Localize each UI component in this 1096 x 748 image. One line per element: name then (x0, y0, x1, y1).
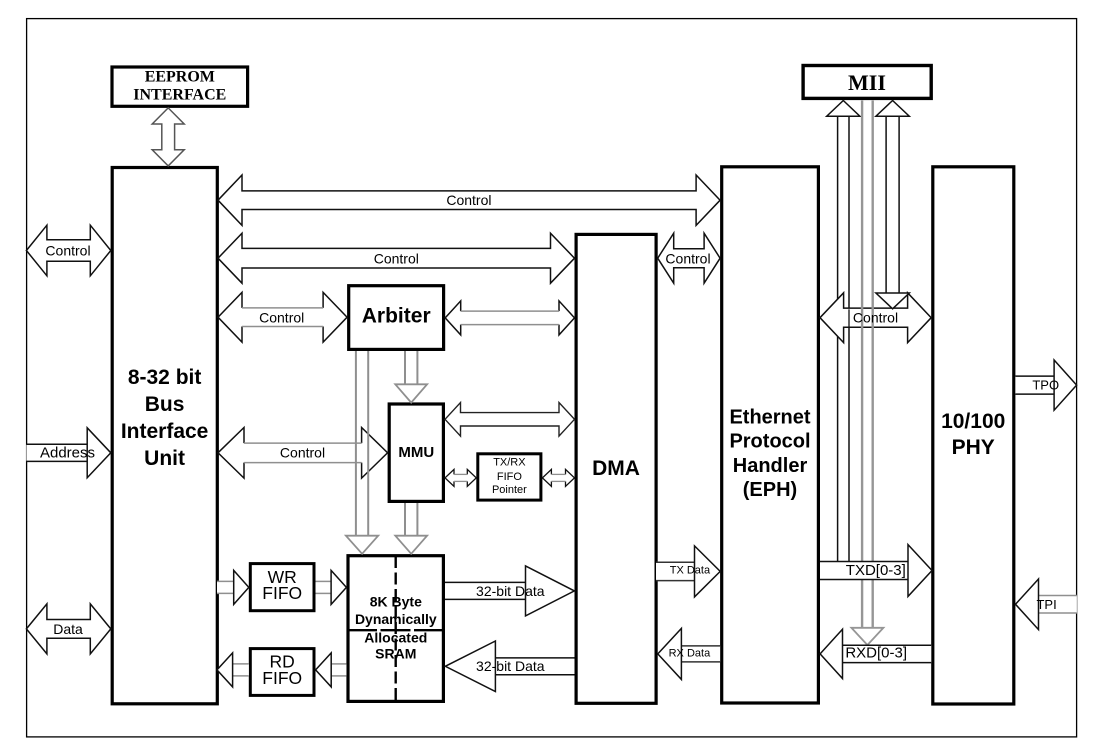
svg-text:TPI: TPI (1036, 597, 1056, 612)
svg-text:Control: Control (853, 310, 898, 326)
svg-text:MII: MII (848, 70, 886, 95)
svg-text:EEPROM: EEPROM (145, 69, 215, 86)
bus MII left (up arrow to MII) (838, 116, 849, 561)
bus 32-bit Data SRAM to DMA (arrow right) (445, 582, 526, 599)
svg-text:8K Byte: 8K Byte (370, 593, 422, 609)
svg-text:Ethernet: Ethernet (729, 407, 810, 429)
bus MII right (arrow MII down to EPH-PHY control) (886, 116, 899, 292)
wire MMU to SRAM (gray arrow down) (404, 503, 406, 536)
block MMU (389, 404, 443, 501)
wire crossing segment (848, 309, 850, 327)
block Ethernet Protocol Handler (EPH) (722, 167, 819, 703)
svg-text:Control: Control (259, 309, 304, 325)
block MII (803, 66, 931, 99)
block TX/RX FIFO Pointer (478, 454, 541, 500)
bus RD FIFO to BIU (arrow left) (233, 664, 249, 676)
bus Arbiter-DMA (double arrow) (445, 301, 574, 335)
svg-text:INTERFACE: INTERFACE (133, 87, 226, 104)
svg-text:10/100: 10/100 (941, 410, 1005, 433)
bus BIU to WR FIFO (arrow right) (217, 581, 234, 593)
svg-text:PHY: PHY (952, 436, 995, 459)
bus MMU-FIFOPointer (small double arrow) (445, 469, 476, 486)
svg-text:32-bit Data: 32-bit Data (476, 658, 545, 674)
bus EEPROM-BIU (vertical double arrow) (152, 108, 184, 166)
bus Control DMA-EPH (double arrow) (658, 233, 720, 283)
svg-text:Arbiter: Arbiter (362, 305, 431, 328)
bus RXD[0-3] PHY to EPH (arrow left) (843, 645, 932, 662)
svg-text:FIFO: FIFO (262, 583, 302, 603)
svg-text:Control: Control (280, 445, 325, 461)
svg-text:RX Data: RX Data (669, 647, 711, 659)
bus MMU-DMA (double arrow) (445, 403, 575, 437)
svg-text:Interface: Interface (121, 420, 209, 443)
bus Control BIU-Arbiter (double arrow) (218, 292, 347, 342)
wire Arbiter to SRAM (gray arrow down) (355, 351, 357, 536)
svg-text:MMU: MMU (398, 444, 434, 461)
bus 32-bit Data DMA to SRAM (arrow left) (495, 658, 574, 675)
svg-text:Control: Control (374, 250, 419, 266)
svg-text:Dynamically: Dynamically (355, 611, 437, 627)
bus Control BIU-DMA (double arrow) (218, 233, 575, 283)
bus Control BIU-MMU (double arrow) (218, 428, 388, 479)
svg-text:Control: Control (45, 242, 90, 258)
bus Control host-BIU (double arrow) (26, 225, 110, 276)
svg-text:TXD[0-3]: TXD[0-3] (846, 562, 906, 579)
svg-text:TPO: TPO (1032, 378, 1059, 393)
svg-text:Allocated: Allocated (364, 630, 427, 646)
block 10/100 PHY (933, 167, 1014, 704)
block WR FIFO (250, 564, 314, 611)
block 8-32 bit Bus Interface Unit (112, 168, 217, 704)
block DMA (576, 234, 656, 703)
svg-text:FIFO: FIFO (497, 471, 522, 483)
wire Arbiter to MMU (gray arrow down) (404, 351, 406, 384)
block Arbiter (349, 286, 444, 350)
bus TPI into PHY (arrow left) (1039, 596, 1077, 614)
svg-text:TX Data: TX Data (670, 564, 711, 576)
bus Address host-BIU (single arrow) (26, 444, 87, 461)
svg-text:Control: Control (665, 250, 710, 266)
svg-text:(EPH): (EPH) (743, 479, 797, 501)
block 8K Byte Dynamically Allocated SRAM (348, 556, 443, 702)
svg-text:DMA: DMA (592, 457, 640, 480)
bus RX Data EPH to DMA (arrow left) (681, 646, 720, 662)
block RD FIFO (250, 649, 314, 696)
bus TPO PHY out (arrow right) (1015, 376, 1054, 394)
bus TX Data DMA to EPH (arrow right) (656, 562, 695, 580)
svg-text:SRAM: SRAM (375, 646, 416, 662)
bus SRAM to RD FIFO (arrow left) (331, 664, 346, 676)
bus Data host-BIU (double arrow) (26, 604, 110, 654)
svg-text:32-bit Data: 32-bit Data (476, 583, 545, 599)
svg-text:8-32 bit: 8-32 bit (128, 366, 202, 389)
svg-text:Protocol: Protocol (729, 431, 810, 453)
block EEPROM INTERFACE (112, 67, 248, 106)
bus Control BIU-EPH (double arrow) (218, 175, 720, 225)
svg-text:Address: Address (40, 444, 95, 461)
wire MII to RXD (gray arrow down) (861, 100, 863, 627)
svg-text:Pointer: Pointer (492, 484, 527, 496)
svg-text:TX/RX: TX/RX (493, 457, 526, 469)
svg-text:Unit: Unit (144, 447, 185, 470)
bus WR FIFO to SRAM (arrow right) (316, 581, 332, 593)
svg-text:RXD[0-3]: RXD[0-3] (845, 644, 907, 661)
svg-text:Bus: Bus (145, 393, 185, 416)
SRAM dashed horizontal divider (347, 629, 444, 631)
bus Control EPH-PHY (double arrow) (820, 293, 931, 343)
svg-text:Control: Control (446, 192, 491, 208)
SRAM dashed vertical divider (395, 556, 397, 701)
svg-text:Handler: Handler (733, 455, 808, 477)
bus FIFOPointer-DMA (small double arrow) (542, 469, 574, 486)
bus TXD[0-3] EPH to PHY (arrow right) (820, 562, 908, 580)
svg-text:Data: Data (53, 621, 83, 637)
svg-text:FIFO: FIFO (262, 668, 302, 688)
